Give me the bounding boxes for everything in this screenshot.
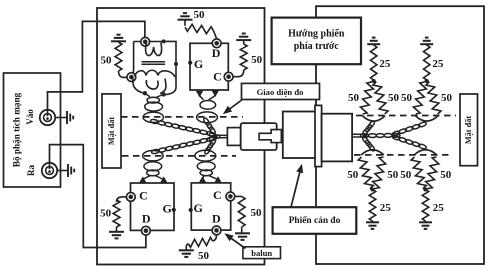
svg-text:50: 50 (347, 169, 359, 181)
label box Phien can do (273, 207, 357, 234)
resistor 50 Q3 source (235, 196, 245, 233)
connector Ra (42, 163, 57, 178)
node Q3 gate (189, 208, 193, 212)
label box Huong phien phia truoc (272, 18, 361, 65)
label 50 tree T1 right (388, 92, 400, 104)
twisted pair to tree1 top (362, 120, 376, 136)
svg-text:25: 25 (433, 202, 445, 214)
twisted pair to tree1 bottom (362, 136, 376, 152)
svg-text:50: 50 (388, 92, 400, 104)
arrow Phien can do (291, 164, 303, 208)
resistor 25 tree T2 (424, 45, 430, 80)
resistor 50 tree B2 right (426, 157, 439, 190)
node tree T1 (372, 79, 376, 83)
twisted pair B2 from knot (204, 138, 217, 155)
svg-text:G: G (194, 201, 203, 215)
connector receptacle bush (282, 131, 289, 142)
transistor Q1 body (190, 43, 228, 90)
twisted pair A coil (145, 93, 164, 111)
connector Vao (40, 110, 55, 125)
box wafer station (right) (316, 6, 484, 264)
svg-text:Mặt đất: Mặt đất (464, 116, 473, 145)
svg-text:50: 50 (198, 250, 210, 262)
ground above Q1 drain resistor (178, 13, 193, 26)
svg-text:25: 25 (380, 202, 392, 214)
terminal balun primary-out (127, 73, 136, 82)
terminal Q2 source (126, 193, 135, 202)
resistor 25 tree B2 (422, 190, 428, 222)
cup tree B2 (414, 150, 437, 155)
arrowhead pair B left at Q1 (196, 91, 204, 98)
arrowhead pair B2 right at Q3 (214, 176, 222, 183)
svg-text:50: 50 (400, 169, 412, 181)
svg-text:50: 50 (100, 207, 112, 219)
terminal balun primary-in (141, 37, 150, 46)
node tree B1 (371, 188, 375, 192)
label 25 tree T2 (432, 58, 444, 70)
svg-text:G: G (194, 57, 203, 71)
wire balun top to secondary leg (164, 41, 176, 94)
resistor 50 Q3 drain (balun feed) (186, 235, 216, 250)
twisted pair to tree2 top (392, 121, 427, 136)
svg-text:50: 50 (101, 55, 113, 67)
terminal Q1 drain (212, 39, 221, 48)
twisted pair B2 at reference plane (195, 150, 216, 161)
interface flange (315, 105, 322, 166)
resistor 50 at balun input (115, 42, 122, 71)
svg-text:50: 50 (348, 92, 360, 104)
twisted pair A2 at reference plane (143, 151, 163, 161)
connector cable collar (227, 128, 240, 146)
label Q2 C (139, 188, 148, 202)
svg-text:Hướng phiến: Hướng phiến (288, 28, 345, 39)
ground below Q2 source resistor (109, 232, 124, 239)
svg-text:25: 25 (432, 58, 444, 70)
node Q1 gate (188, 61, 192, 65)
arrowhead pair A2 left at Q2 (139, 176, 147, 183)
resistor 25 tree T1 (371, 45, 377, 80)
resistor 50 tree B1 right (373, 157, 386, 190)
wire Ra to Q2 drain (50, 145, 146, 248)
box network-analyzer (Bo phan tich mang) (4, 73, 61, 187)
terminal Q3 source (226, 192, 235, 201)
node balun leg right (162, 92, 166, 96)
ground below tree B2 (419, 221, 432, 229)
label 50 tree T2 left (401, 92, 413, 104)
label box balun (243, 247, 281, 259)
node tree T2 (425, 79, 429, 83)
node on balun right wire (174, 62, 178, 66)
dashed line lower-left (reference plane) (122, 155, 236, 157)
svg-text:Mặt đất: Mặt đất (107, 117, 116, 146)
dashed line upper-left (reference plane) (121, 116, 243, 118)
label Q1 C (213, 69, 222, 83)
svg-text:G: G (163, 201, 172, 215)
label 50 tree T2 right (441, 92, 453, 104)
ground below tree B1 (366, 221, 379, 229)
ground below Q3 drain resistor (179, 250, 194, 257)
twisted pair B at reference plane (197, 112, 218, 123)
node right knot (363, 134, 367, 138)
svg-text:50: 50 (194, 9, 206, 21)
svg-text:25: 25 (379, 58, 391, 70)
label 50 tree B1 left (347, 169, 359, 181)
svg-text:Ra: Ra (26, 165, 36, 176)
balun T1 secondary winding (135, 70, 176, 77)
svg-text:50: 50 (387, 169, 399, 181)
svg-text:Vào: Vào (25, 109, 35, 125)
box test fixture (middle) (97, 8, 265, 265)
ground above 50 (balun input) (111, 35, 126, 43)
ground at Vao (67, 111, 73, 124)
twisted pair horizontal (360, 133, 400, 137)
svg-text:D: D (142, 212, 151, 226)
arrowhead pair A2 right at Q2 (160, 176, 168, 183)
label Bo phan tich mang (12, 92, 22, 167)
ground above Q1 source resistor (236, 34, 251, 45)
terminal Q3 drain (212, 226, 221, 235)
label Q2 G (163, 201, 172, 215)
svg-text:balun: balun (251, 248, 272, 258)
resistor 50 tree T1 right (373, 81, 388, 114)
twisted pair to tree2 bottom (392, 134, 427, 149)
label Q1 D (212, 46, 221, 60)
interface body left (283, 112, 316, 159)
arrow balun (224, 233, 245, 248)
ground above tree T2 (420, 38, 433, 46)
svg-text:C: C (139, 188, 148, 202)
svg-text:C: C (213, 69, 222, 83)
label Q3 G (194, 201, 203, 215)
arrow Giao dien do (223, 100, 242, 114)
label Ra (26, 165, 36, 176)
label 50 (Q2 source) (100, 207, 112, 219)
svg-text:Giao diện đo: Giao diện đo (257, 87, 304, 97)
twisted pair A2 coil (144, 162, 163, 179)
label 50 (Q3 source) (251, 207, 263, 219)
connector plug body (241, 123, 277, 150)
node Q2 gate (172, 208, 176, 212)
arrowhead pair B right at Q1 (212, 90, 220, 97)
svg-text:phía trước: phía trước (294, 41, 340, 52)
label box Mat dat right (460, 94, 478, 166)
label 50 tree B1 right (387, 169, 399, 181)
knot twisted pairs joint (209, 133, 220, 142)
label 50 tree B2 right (440, 169, 452, 181)
resistor 50 tree T2 right (426, 81, 441, 114)
arrowhead pair B2 left at Q3 (199, 176, 207, 183)
resistor 50 Q1 source (233, 44, 247, 77)
svg-text:50: 50 (440, 169, 452, 181)
label 50 (Q3 drain) (198, 250, 210, 262)
resistor 50 tree B1 left (358, 157, 373, 190)
node balun top-right (162, 39, 166, 43)
node tree B2 (424, 188, 428, 192)
cup tree T1 (362, 116, 385, 121)
wire Vao-shell to ground (55, 117, 67, 119)
ground above tree T1 (367, 38, 380, 46)
label 50 tree B2 left (400, 169, 412, 181)
svg-text:Phiến cản đo: Phiến cản đo (289, 215, 341, 226)
label Q2 D (142, 212, 151, 226)
balun T1 core (142, 61, 166, 65)
label 50 (Q1 source) (251, 54, 263, 66)
twisted pair A2 from knot (151, 136, 215, 154)
label 50 tree T1 left (348, 92, 360, 104)
balun T1 output legs (133, 79, 166, 94)
cup tree B1 (361, 150, 384, 155)
svg-text:50: 50 (251, 207, 263, 219)
label Q3 C (213, 188, 222, 202)
wire interface right stub (352, 134, 364, 137)
label 50 (Q1 drain) (194, 9, 206, 21)
twisted pair A at reference plane (143, 112, 163, 122)
balun T1 primary winding (146, 43, 162, 56)
resistor 50 tree T1 left (360, 81, 373, 114)
terminal Q2 drain (142, 226, 151, 235)
dashed line upper-right (reference plane) (356, 115, 456, 117)
twisted pair B2 coil (197, 162, 216, 179)
ground at Ra (68, 164, 74, 177)
svg-text:Bộ phận tích mạng: Bộ phận tích mạng (12, 92, 22, 167)
label Q1 G (194, 57, 203, 71)
balun T1 frame (132, 42, 164, 78)
label 25 tree B1 (380, 202, 392, 214)
resistor 50 tree B2 left (411, 157, 426, 190)
svg-text:50: 50 (441, 92, 453, 104)
transistor Q2 body (131, 183, 175, 230)
wire Ra-shell to ground (57, 170, 68, 172)
resistor 50 Q2 source (113, 197, 126, 232)
twisted pair B to interface knot (203, 117, 217, 135)
dashed line lower-right (reference plane) (354, 154, 452, 156)
svg-text:50: 50 (401, 92, 413, 104)
label Q3 D (212, 211, 221, 225)
interface body right (322, 114, 353, 162)
svg-text:D: D (212, 211, 221, 225)
resistor 50 Q1 drain (185, 24, 217, 39)
label 25 tree T1 (379, 58, 391, 70)
svg-text:C: C (213, 188, 222, 202)
resistor 25 tree B1 (369, 190, 375, 222)
resistor 50 tree T2 left (413, 81, 426, 114)
label Vao (25, 109, 35, 125)
connector center pin (259, 130, 281, 143)
terminal Q1 source (224, 72, 233, 81)
wire knot to connector (219, 135, 228, 138)
ground below Q3 source resistor (235, 233, 250, 240)
label 25 tree B2 (433, 202, 445, 214)
transistor Q3 body (191, 183, 230, 230)
twisted pair B coil (200, 96, 216, 110)
cup tree T2 (415, 116, 438, 121)
label box Giao dien do (242, 83, 320, 99)
wire 50 to balun primary (119, 71, 128, 77)
twisted pair A to interface knot (150, 119, 215, 137)
label 50 (balun input) (101, 55, 113, 67)
wire Vao to balun input (48, 21, 145, 110)
svg-text:50: 50 (251, 54, 263, 66)
label box Mat dat left (102, 94, 121, 168)
node balun leg left (143, 91, 147, 95)
